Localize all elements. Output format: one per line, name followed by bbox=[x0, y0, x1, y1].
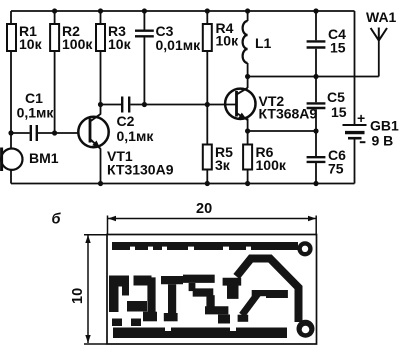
wire L1 top stub bbox=[247, 11, 249, 21]
svg-text:C5: C5 bbox=[327, 89, 345, 105]
microphone BM1 bbox=[1, 148, 22, 172]
svg-text:100к: 100к bbox=[256, 157, 287, 173]
dimension 20 extension line right bbox=[315, 216, 317, 235]
capacitor C3 bbox=[135, 31, 154, 37]
svg-text:0,1мк: 0,1мк bbox=[17, 104, 55, 120]
dimension 10 extension line top bbox=[84, 234, 107, 236]
svg-text:10: 10 bbox=[70, 288, 86, 304]
svg-text:15: 15 bbox=[331, 104, 347, 120]
resistor R4 bbox=[203, 24, 212, 51]
svg-text:10к: 10к bbox=[19, 36, 43, 52]
capacitor C1 bbox=[31, 125, 37, 141]
svg-text:100к: 100к bbox=[62, 36, 93, 52]
wire R2 branch bbox=[54, 11, 56, 133]
node VT1 collector junction bbox=[98, 102, 103, 107]
resistor R3 bbox=[96, 24, 105, 51]
PCB trace vertical bar bbox=[147, 277, 155, 320]
transistor VT1 bbox=[78, 114, 108, 149]
PCB bottom trace notches bbox=[165, 328, 236, 332]
wire VT1 emitter column bbox=[100, 149, 102, 184]
node top rail C4 junction bbox=[313, 8, 318, 13]
wire R4 R5 column bbox=[206, 11, 208, 184]
wire bottom ground rail bbox=[11, 183, 355, 185]
wire C6 branch bbox=[315, 131, 317, 184]
node L1 VT2 collector junction bbox=[245, 74, 250, 79]
node R2 VT1 base junction bbox=[52, 130, 57, 135]
PCB trace five shape bbox=[183, 275, 215, 283]
wire C1 node (mic to C1 to VT1 base) bbox=[11, 132, 79, 134]
svg-text:15: 15 bbox=[330, 40, 346, 56]
node C3 base junction bbox=[142, 102, 147, 107]
capacitor C4 bbox=[307, 41, 326, 47]
antenna WA1 bbox=[371, 28, 387, 41]
node C5 C6 junction bbox=[313, 128, 318, 133]
node VT2 emitter R6 junction bbox=[245, 128, 250, 133]
svg-text:10к: 10к bbox=[108, 36, 132, 52]
capacitor C6 bbox=[307, 157, 326, 162]
PCB top copper trace bbox=[112, 242, 298, 250]
resistor R1 bbox=[7, 24, 16, 51]
node C4 C5 antenna junction bbox=[313, 74, 318, 79]
wire emitter node to C5 C6 junction bbox=[248, 130, 316, 132]
node top rail C3 junction bbox=[142, 8, 147, 13]
svg-text:C2: C2 bbox=[117, 113, 135, 129]
svg-text:+: + bbox=[357, 110, 365, 126]
resistor R5 bbox=[203, 145, 212, 170]
capacitor C5 bbox=[307, 103, 326, 108]
svg-text:9 В: 9 В bbox=[372, 133, 394, 149]
svg-text:20: 20 bbox=[196, 201, 212, 217]
svg-text:3к: 3к bbox=[215, 157, 231, 173]
dimension 10 extension line bottom bbox=[84, 343, 107, 345]
PCB pad bottom right bbox=[297, 320, 315, 338]
wire R3 / VT1 collector column bbox=[100, 11, 102, 115]
wire C5 branch bbox=[315, 77, 317, 132]
wire VT2 emitter / R6 column bbox=[247, 119, 249, 184]
wire R1 branch / microphone column bbox=[10, 11, 12, 184]
wire antenna stem bbox=[378, 41, 380, 77]
node top rail R4 junction bbox=[205, 8, 210, 13]
resistor R2 bbox=[50, 24, 59, 51]
node top rail R3 junction bbox=[98, 8, 103, 13]
wire C2 to VT2 base node bbox=[130, 104, 236, 106]
node bottom rail C6 junction bbox=[313, 181, 318, 186]
node R4 R5 VT2 base junction bbox=[205, 102, 210, 107]
svg-text:GB1: GB1 bbox=[370, 118, 399, 134]
wire C3 branch bbox=[143, 11, 145, 105]
PCB trace z shape bbox=[252, 290, 267, 296]
svg-text:ВМ1: ВМ1 bbox=[29, 150, 59, 166]
dimension line 10 bbox=[87, 235, 89, 343]
dimension line 20 bbox=[108, 218, 316, 220]
PCB trace roof shape bbox=[237, 259, 299, 323]
wire battery positive drop bbox=[354, 11, 356, 124]
capacitor C2 bbox=[122, 97, 129, 113]
PCB bottom copper trace bbox=[113, 328, 287, 339]
wire C4 branch bbox=[315, 11, 317, 77]
node bottom rail R5 junction bbox=[205, 181, 210, 186]
transistor VT2 bbox=[225, 88, 255, 120]
svg-text:WA1: WA1 bbox=[366, 9, 397, 25]
wire L1 bottom to collector node bbox=[247, 63, 249, 88]
wire VT1 collector to C2 bbox=[101, 104, 122, 106]
svg-text:КТ3130А9: КТ3130А9 bbox=[107, 162, 174, 178]
label GB1 minus sign bbox=[360, 141, 366, 143]
node bottom rail VT1 emitter junction bbox=[98, 181, 103, 186]
PCB trace z diagonal bbox=[242, 294, 258, 316]
dimension 20 extension line left bbox=[107, 216, 109, 235]
resistor R6 bbox=[243, 145, 252, 170]
svg-text:75: 75 bbox=[328, 161, 344, 177]
PCB trace gamma shape bbox=[161, 276, 183, 284]
svg-text:0,01мк: 0,01мк bbox=[156, 37, 202, 53]
PCB trace left roof terminal bbox=[223, 278, 242, 299]
node mic C1 junction bbox=[8, 130, 13, 135]
battery GB1 bbox=[343, 125, 367, 138]
svg-text:10к: 10к bbox=[216, 33, 240, 49]
node top rail L1 junction bbox=[245, 8, 250, 13]
svg-text:б: б bbox=[52, 212, 62, 228]
PCB trace omega shape left bbox=[109, 276, 129, 287]
PCB board outline bbox=[107, 235, 317, 345]
inductor L1 bbox=[243, 21, 248, 63]
PCB pad top right bbox=[297, 241, 312, 256]
node top rail R2 junction bbox=[52, 8, 57, 13]
node bottom rail R6 junction bbox=[245, 181, 250, 186]
svg-text:L1: L1 bbox=[255, 35, 272, 51]
wire top supply rail bbox=[11, 10, 355, 12]
wire collector node to antenna bbox=[248, 76, 379, 78]
wire battery negative to bottom rail bbox=[354, 140, 356, 184]
svg-text:0,1мк: 0,1мк bbox=[117, 128, 155, 144]
PCB top trace notches bbox=[130, 247, 251, 251]
